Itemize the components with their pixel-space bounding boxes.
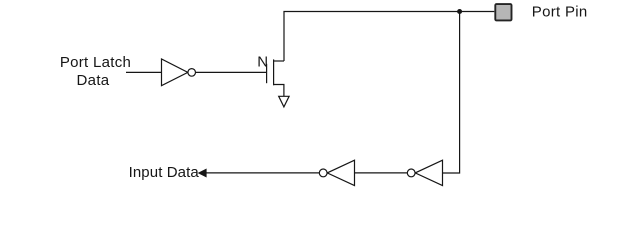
transistor Q1 source stub	[274, 85, 284, 97]
wire: U2 output to input data arrow	[206, 172, 320, 174]
node: junction dot on top rail	[457, 9, 462, 14]
port pin pad (gray square)	[495, 4, 511, 20]
inverter U3 output bubble	[407, 169, 415, 177]
inverter U1 output bubble	[188, 69, 196, 77]
svg-text:Port Pin: Port Pin	[532, 4, 588, 21]
svg-text:Input Data: Input Data	[129, 164, 200, 181]
transistor Q1 channel bar	[273, 59, 275, 85]
inverter U3 triangle (left pointing)	[415, 160, 442, 185]
wire: drain riser and top rail to port pin	[284, 12, 494, 62]
wire: latch output to inverter U1 input	[126, 71, 162, 73]
inverter U2 triangle (left pointing)	[327, 160, 354, 185]
transistor Q1 gate bar	[266, 64, 268, 83]
inverter U2 output bubble	[319, 169, 327, 177]
ground arrow (open arrowhead down)	[279, 96, 289, 107]
wire: inverter U1 output to transistor Q1 gate	[196, 71, 267, 73]
svg-text:Port Latch: Port Latch	[60, 54, 131, 71]
wire: U3 output to U2 input	[355, 172, 408, 174]
arrowhead at Input Data (filled, pointing left)	[198, 169, 207, 178]
wire: vertical drop from node to read buffer U3	[443, 12, 460, 174]
svg-text:Data: Data	[77, 72, 110, 89]
transistor Q1 drain stub	[274, 60, 284, 62]
inverter U1 triangle	[162, 59, 188, 86]
label: Port Latch Data	[60, 54, 131, 89]
